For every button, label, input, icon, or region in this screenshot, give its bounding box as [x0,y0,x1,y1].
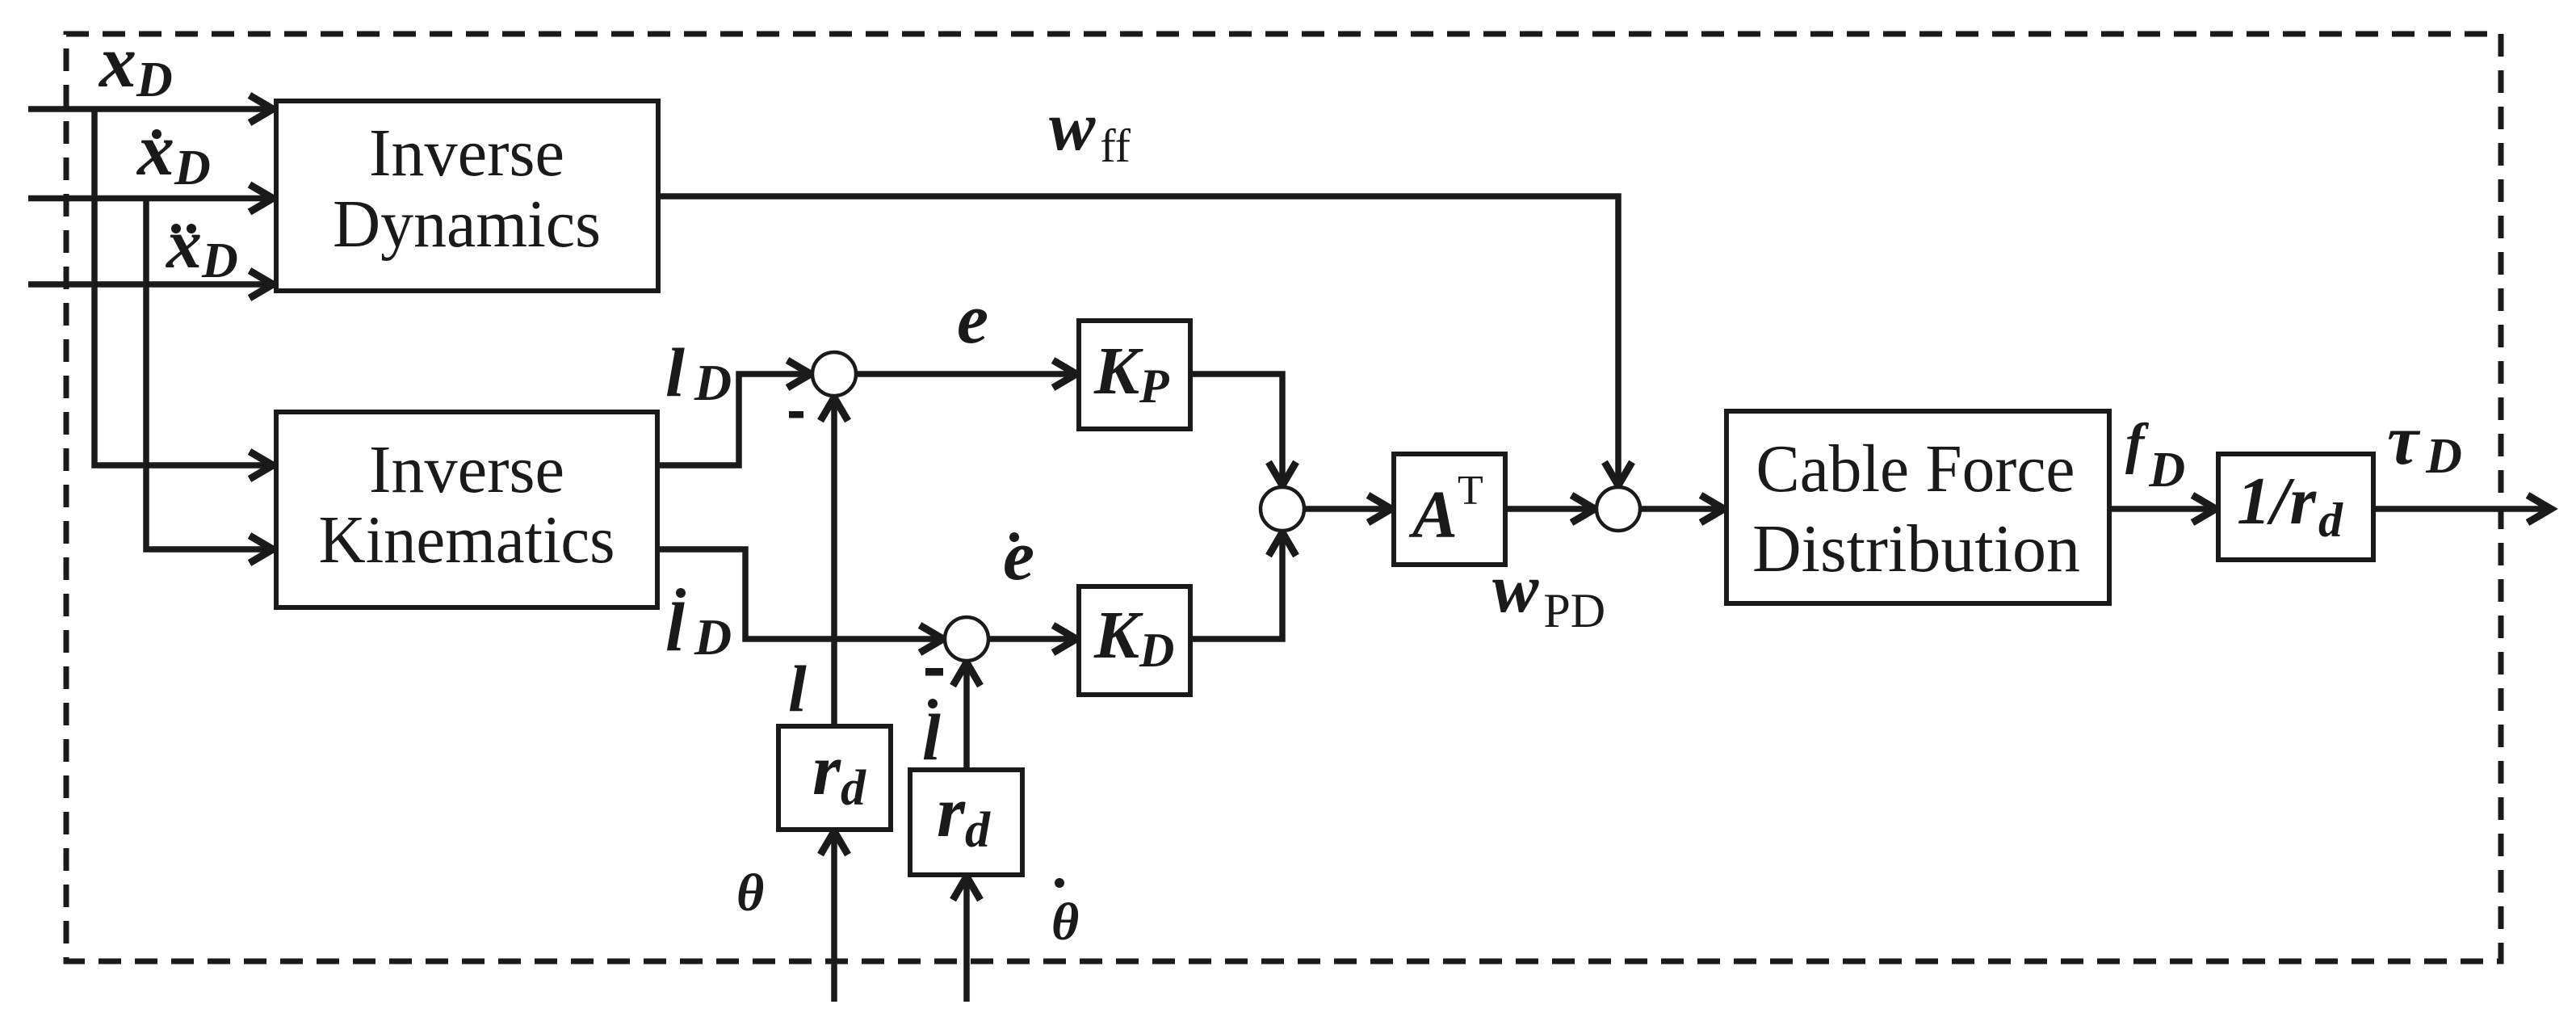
svg-text:Cable Force: Cable Force [1756,431,2075,506]
wire lD from Inverse Kinematics to junction J1 [658,374,810,465]
wire KD output to junction J3 [1190,533,1282,639]
minus sign at J1 [789,411,803,418]
summing junction J2 [945,617,988,661]
wire wPD from AT to junction J4 [1505,506,1594,512]
label Cable Force Distribution [1752,431,2080,586]
block 1/rd [2218,454,2373,560]
label Inverse Dynamics [333,116,601,262]
wire J3 to AT [1304,506,1391,512]
wire tauD output [2373,506,2550,512]
wire ldot feedback from rd2 up to J2 [963,663,970,770]
svg-text:l: l [788,652,807,725]
summing junction J3 [1261,487,1304,531]
dot of edot label [1009,532,1019,542]
dot of ldot label [928,699,938,708]
wire e from J1 to KP [856,371,1076,377]
wire KP output to junction J3 [1190,374,1282,485]
wire theta input to rd1 [831,832,837,1002]
wire xD input [28,106,272,112]
wire ldotD from Inverse Kinematics to junction J2 [658,549,942,639]
minus sign at J2 [925,668,943,676]
wire fD from Cable Force Distribution to 1/rd [2109,506,2215,512]
wire thetadot input to rd2 [963,877,970,1002]
svg-text:Inverse: Inverse [369,116,564,191]
wire wff feedforward from Inverse Dynamics to junction J4 [658,196,1618,485]
svg-text:l: l [922,700,941,774]
block KP [1079,321,1190,429]
svg-text:Distribution: Distribution [1752,511,2080,586]
svg-text:Kinematics: Kinematics [319,502,615,578]
svg-text:e: e [957,280,988,359]
wire xddotD input [28,281,272,288]
block Inverse Kinematics [276,412,657,607]
block Inverse Dynamics [276,101,658,291]
svg-text:Inverse: Inverse [369,432,564,507]
block AT [1394,454,1505,565]
dot of xdotD label [152,129,162,139]
svg-text:θ: θ [1051,893,1079,952]
block Cable Force Distribution [1726,411,2109,603]
dot of ldotD label [676,588,686,598]
summing junction J4 [1596,487,1640,531]
block rd1 [778,726,891,830]
wire xdotD branch to Inverse Kinematics [146,199,272,550]
summing junction J1 [812,352,856,396]
block rd2 [910,770,1022,875]
dot of thetadot label [1055,878,1064,888]
dots of xddotD label [171,224,181,233]
wire edot from J2 to KD [988,636,1076,642]
wire J4 to Cable Force Distribution [1640,506,1723,512]
wire xdotD input [28,195,272,202]
svg-text:θ: θ [736,864,764,922]
wire l feedback from rd1 up to J1 [831,398,837,726]
wire xD branch to Inverse Kinematics [94,109,272,465]
block KD [1079,586,1190,695]
svg-text:e: e [1003,517,1034,595]
label Inverse Kinematics [319,432,615,578]
svg-text:Dynamics: Dynamics [333,187,601,262]
